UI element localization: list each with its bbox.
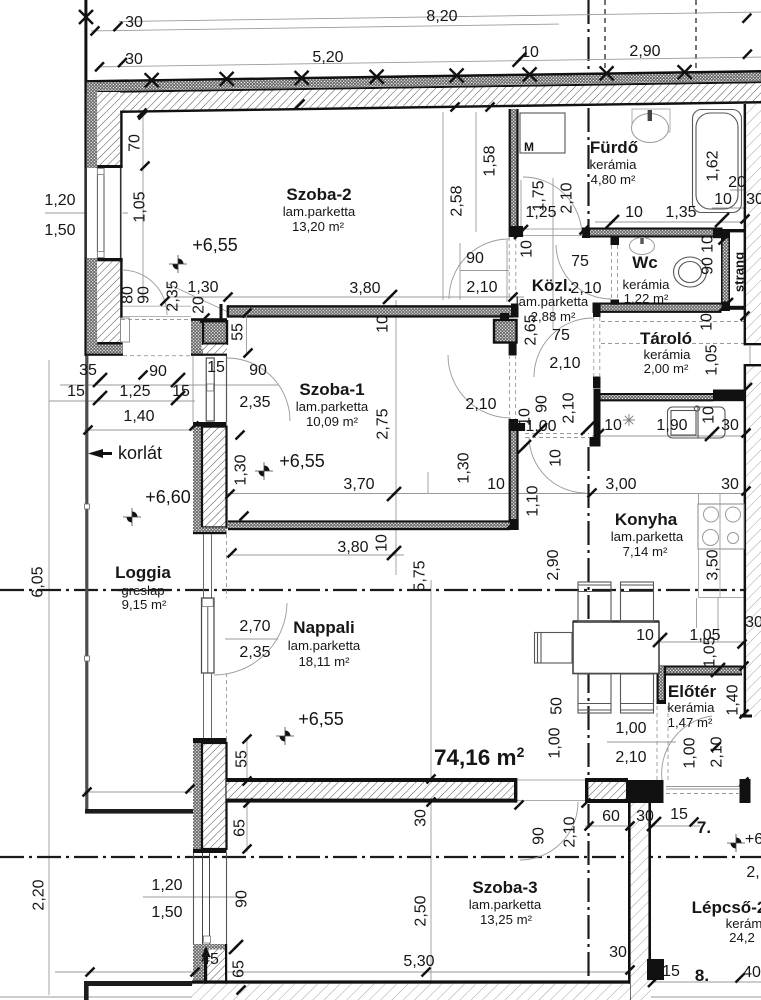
konyha-nappali passage arc (közl door 1,00) xyxy=(529,437,586,493)
svg-text:10: 10 xyxy=(487,476,505,493)
bathtub xyxy=(693,110,742,213)
ticks fürdő 10/1,35 y222 xyxy=(605,215,619,229)
svg-text:65: 65 xyxy=(231,960,248,978)
left wall cap above window xyxy=(97,165,122,168)
washing machine M box xyxy=(520,113,565,153)
svg-text:2,10: 2,10 xyxy=(466,279,497,296)
ext vert x553 xyxy=(552,178,554,330)
svg-text:7.: 7. xyxy=(697,818,711,837)
szoba2 bottom wall right end cap xyxy=(511,304,519,318)
dims rotated xyxy=(30,134,747,978)
svg-text:10: 10 xyxy=(625,204,643,221)
svg-text:10: 10 xyxy=(521,44,539,61)
ticks 1,40 loggia bottom xyxy=(83,788,92,797)
right wall hatch strip xyxy=(746,104,761,344)
svg-text:1,47 m²: 1,47 m² xyxy=(668,715,713,730)
right wall inner face line upper (y105-717) xyxy=(744,104,747,344)
svg-text:3,50: 3,50 xyxy=(705,549,722,580)
svg-text:18,11 m²: 18,11 m² xyxy=(298,654,350,669)
ticks 3,80 y555 xyxy=(228,549,237,558)
svg-text:20: 20 xyxy=(191,296,208,314)
svg-text:9,15 m²: 9,15 m² xyxy=(122,597,167,612)
wall stub below szoba-1 door + nub xyxy=(509,419,518,431)
ticks 70 dim xyxy=(139,111,148,120)
konyha wall L cap bottom xyxy=(590,437,601,447)
dim line lépcső y826 xyxy=(585,825,700,827)
ticks előtér door xyxy=(712,743,721,752)
chimney X marks on wall xyxy=(145,73,159,87)
tároló left door jambs xyxy=(593,313,601,317)
ticks lépcső y826 xyxy=(585,822,594,831)
chair bottom-right xyxy=(621,674,654,713)
lépcső door corner block xyxy=(647,959,664,980)
svg-text:1,58: 1,58 xyxy=(482,145,499,176)
ticks szoba1 bottom wall xyxy=(508,520,517,529)
wall corner cap at fürdő door xyxy=(509,226,523,237)
svg-text:5,20: 5,20 xyxy=(312,49,343,66)
dim line 3,80 y555 xyxy=(228,554,404,556)
svg-text:20: 20 xyxy=(728,174,746,191)
svg-text:2,75: 2,75 xyxy=(375,408,392,439)
svg-text:2,: 2, xyxy=(746,864,759,881)
pillar hatch block xyxy=(203,321,227,344)
left wall stipple strip lower xyxy=(87,258,97,354)
szoba-3 window W4 (y853-944) xyxy=(194,853,227,944)
svg-text:30: 30 xyxy=(636,808,654,825)
left wall inner face upper xyxy=(120,111,122,168)
szoba-2 bottom wall (y305-317) xyxy=(227,305,514,317)
snowflake symbol konyha xyxy=(623,414,635,426)
svg-text:1,05: 1,05 xyxy=(132,191,149,222)
left wall outer face line xyxy=(84,80,86,356)
ticks x431 wall crossing xyxy=(427,775,436,784)
ticks fürdő door dims xyxy=(514,225,528,239)
ext horiz előtér 1,00 y730 half xyxy=(427,472,429,493)
tároló door arc xyxy=(534,318,593,377)
left wall inner face lower xyxy=(120,258,122,344)
svg-text:lam.parketta: lam.parketta xyxy=(516,294,589,309)
ticks előtér wall xyxy=(711,663,725,677)
dim line lépcső y982 xyxy=(632,981,761,983)
svg-text:1,40: 1,40 xyxy=(123,408,154,425)
ext line x246.5 for 55 xyxy=(246,314,248,356)
svg-text:30: 30 xyxy=(125,51,143,68)
wc sink small xyxy=(630,238,655,255)
ext line közl vertical x460 xyxy=(459,243,461,300)
svg-text:korlát: korlát xyxy=(118,443,162,463)
dim line konyha 10/1,05 y644 xyxy=(652,641,744,643)
dim line 35/90/15 y385 xyxy=(60,384,278,386)
szoba-1 / nappali wall vertical (x509-518.5, y431-530) xyxy=(509,431,519,530)
left wall hatch upper xyxy=(97,92,120,168)
ticks 55 pillar xyxy=(243,309,252,318)
left vertical dim line above wall xyxy=(84,0,87,80)
svg-text:1,90: 1,90 xyxy=(656,417,687,434)
svg-text:90: 90 xyxy=(234,890,251,908)
top dim line 30 first xyxy=(91,24,559,31)
svg-text:1,10: 1,10 xyxy=(525,485,542,516)
svg-text:1,05: 1,05 xyxy=(704,344,721,375)
left wall bottom face xyxy=(97,342,122,345)
ext vert x521 fürdő door xyxy=(520,180,522,232)
fürdő door threshold lines (x523-582) xyxy=(523,228,582,230)
wc door jambs and leaf xyxy=(611,236,620,245)
tick right edge top lines xyxy=(742,14,751,23)
svg-text:2,70: 2,70 xyxy=(239,618,270,635)
svg-text:30: 30 xyxy=(721,417,739,434)
svg-text:1,00: 1,00 xyxy=(615,720,646,737)
ticks tároló 10/1,90 y436 xyxy=(590,429,604,443)
svg-text:35: 35 xyxy=(79,362,97,379)
centerline horizontal y590 xyxy=(0,589,761,591)
ticks left wall верх xyxy=(138,109,147,118)
svg-text:Közl.: Közl. xyxy=(532,276,573,295)
közl-konyha wall vertical black bar (x593.5-600.5, y388-446) xyxy=(594,389,601,447)
svg-text:65: 65 xyxy=(232,819,249,837)
svg-text:90: 90 xyxy=(531,827,548,845)
dim line 1,40 loggia bottom xyxy=(84,791,192,793)
dim line 1,20/1,50 bottom xyxy=(143,896,243,898)
ticks 1,40 y430 xyxy=(84,426,93,435)
svg-text:30: 30 xyxy=(413,809,430,827)
svg-text:1,30: 1,30 xyxy=(456,452,473,483)
svg-text:Wc: Wc xyxy=(632,253,658,272)
wall brick hatch band xyxy=(85,83,761,111)
nappali-szoba3 door arc xyxy=(520,802,578,860)
svg-text:2,35: 2,35 xyxy=(239,394,270,411)
svg-text:30: 30 xyxy=(609,944,627,961)
wc right wall / strang (x721-730) xyxy=(721,229,730,311)
svg-text:7,14 m²: 7,14 m² xyxy=(623,544,668,559)
svg-text:2,10: 2,10 xyxy=(561,392,578,423)
ticks tároló right xyxy=(741,312,750,321)
ext vert fürdő 1,58 x476 xyxy=(475,112,477,232)
svg-text:M: M xyxy=(524,140,534,154)
szoba-3 left wall column (y944-1000) xyxy=(193,944,227,1000)
svg-text:90: 90 xyxy=(466,250,484,267)
svg-text:kerámia: kerámia xyxy=(590,157,638,172)
svg-text:10: 10 xyxy=(699,313,716,331)
svg-text:+6,60: +6,60 xyxy=(145,487,191,507)
nappali loggia door arc xyxy=(214,603,287,675)
wall end black edge at szoba-2 wall left xyxy=(220,304,223,320)
svg-text:Loggia: Loggia xyxy=(115,563,171,582)
előtér top wall (x657-742,y665.5-675.5) xyxy=(657,666,742,676)
centerline horizontal y857 xyxy=(0,856,761,858)
left thick line piece xyxy=(84,981,192,986)
svg-text:10: 10 xyxy=(701,406,718,424)
fürdő door arc xyxy=(523,177,582,236)
svg-text:10: 10 xyxy=(636,627,654,644)
svg-text:Fürdő: Fürdő xyxy=(590,138,638,157)
window W1 szoba-2 left xyxy=(86,168,123,258)
szoba2-fürdő wall vertical (x509-518.5, y109-226) xyxy=(509,109,519,226)
svg-text:Konyha: Konyha xyxy=(615,510,678,529)
chair top-left xyxy=(578,582,611,622)
chair top-right xyxy=(621,582,654,622)
svg-text:2,88 m²: 2,88 m² xyxy=(531,309,576,324)
svg-text:10,09 m²: 10,09 m² xyxy=(306,414,359,429)
black corner block (x628-663,y781-803) xyxy=(626,780,664,803)
chair bottom-left xyxy=(578,674,611,713)
ticks 3,70 y494 xyxy=(226,490,235,499)
svg-text:24,2: 24,2 xyxy=(729,930,755,945)
szoba-2 door opening threshold lines xyxy=(123,305,191,307)
svg-text:1,05: 1,05 xyxy=(702,636,719,667)
rail marker square 1 xyxy=(85,504,90,509)
dim line bottom edge y997 xyxy=(0,996,761,998)
svg-text:5,75: 5,75 xyxy=(412,560,429,591)
entry door gap in right wall (y717-779) xyxy=(740,715,752,718)
svg-text:75: 75 xyxy=(552,327,570,344)
svg-text:3,00: 3,00 xyxy=(605,476,636,493)
svg-text:30: 30 xyxy=(721,476,739,493)
small black rect below chimney xyxy=(509,343,517,356)
dim line előtér 1,00/2,10 y742 xyxy=(607,741,676,743)
svg-text:3,80: 3,80 xyxy=(349,280,380,297)
svg-text:55: 55 xyxy=(230,323,247,341)
szoba-1 door arc (to közl) xyxy=(448,355,511,418)
svg-text:3,80: 3,80 xyxy=(337,539,368,556)
small black rect above chimney xyxy=(500,313,509,320)
svg-text:1,40: 1,40 xyxy=(725,684,742,715)
svg-text:90: 90 xyxy=(700,257,717,275)
svg-text:2,10: 2,10 xyxy=(549,355,580,372)
wall stub x585-628 (y778-803) xyxy=(585,778,628,803)
svg-text:8,20: 8,20 xyxy=(426,8,457,25)
nappali loggia window lines y534-598 xyxy=(203,534,205,598)
svg-text:Lépcső-2: Lépcső-2 xyxy=(692,898,761,917)
tároló shelves dashed xyxy=(601,321,744,323)
chair left xyxy=(535,633,573,664)
entry level arrow 45 in szoba-3 wall xyxy=(205,952,207,998)
dim line 70 vertical xyxy=(142,112,144,300)
svg-text:Nappali: Nappali xyxy=(293,618,354,637)
pillar loggia-szoba2: stipple strip xyxy=(191,320,202,356)
svg-text:strang: strang xyxy=(732,252,747,292)
ext vert x744 area right xyxy=(717,598,719,642)
svg-text:10: 10 xyxy=(517,408,534,426)
ext line x431 nappali xyxy=(430,580,432,998)
svg-text:90: 90 xyxy=(136,286,153,304)
svg-text:+6,55: +6,55 xyxy=(192,235,238,255)
svg-text:Szoba-3: Szoba-3 xyxy=(472,878,537,897)
svg-text:10: 10 xyxy=(714,191,732,208)
svg-text:50: 50 xyxy=(549,697,566,715)
svg-text:74,16 m2: 74,16 m2 xyxy=(434,744,525,770)
svg-text:1,30: 1,30 xyxy=(233,454,250,485)
svg-text:kerámia: kerámia xyxy=(644,347,692,362)
ticks konyha 3,00 y493 xyxy=(588,489,597,498)
svg-text:30: 30 xyxy=(746,191,761,208)
svg-text:1,00: 1,00 xyxy=(682,737,699,768)
szoba-1 loggia door frame (x206-214,y358-421) xyxy=(193,356,227,422)
svg-text:1,00: 1,00 xyxy=(547,727,564,758)
window lines y673-738 xyxy=(203,673,205,738)
svg-text:1,20: 1,20 xyxy=(44,192,75,209)
tick double 10 at 5,20 line xyxy=(512,53,526,67)
left wall bottom stipple band xyxy=(87,345,123,354)
szoba-1 bottom wall (x228-510, y520-530) xyxy=(228,520,510,530)
wall insulation stipple band xyxy=(85,72,761,91)
svg-text:6,05: 6,05 xyxy=(30,566,47,597)
svg-text:2,20: 2,20 xyxy=(31,879,48,910)
előtér left wall (x656.5-666,y666-704) xyxy=(657,666,667,704)
svg-text:10: 10 xyxy=(374,534,391,552)
svg-text:1,25: 1,25 xyxy=(119,383,150,400)
chimney block közl xyxy=(494,320,517,343)
svg-text:40: 40 xyxy=(743,964,761,981)
svg-text:45: 45 xyxy=(201,951,219,968)
dim line 1,40 y430 xyxy=(84,429,197,431)
svg-text:2,10: 2,10 xyxy=(709,736,726,767)
loggia-nappali wall column (y422-534) xyxy=(193,422,227,534)
svg-text:1,50: 1,50 xyxy=(44,222,75,239)
svg-text:+6,55: +6,55 xyxy=(298,709,344,729)
svg-text:90: 90 xyxy=(149,363,167,380)
ticks konyha 10/1,05 y641 xyxy=(653,633,667,647)
svg-text:lam.parketta: lam.parketta xyxy=(283,204,356,219)
svg-text:70: 70 xyxy=(127,134,144,152)
svg-text:30: 30 xyxy=(125,14,143,31)
wall outer face line xyxy=(85,70,761,83)
svg-text:10: 10 xyxy=(604,417,622,434)
loggia rail (korlát) line xyxy=(85,356,88,810)
fürdő right small dim lines xyxy=(730,189,761,191)
top dim line 8,20 xyxy=(119,12,761,22)
dashed projection x696 top xyxy=(695,0,697,70)
svg-text:2,35: 2,35 xyxy=(165,280,182,311)
svg-text:13,20 m²: 13,20 m² xyxy=(292,219,345,234)
dim line 3,80 szoba2 xyxy=(168,296,524,298)
svg-text:Előtér: Előtér xyxy=(668,682,717,701)
előtér bottom boundary lines xyxy=(666,786,740,788)
svg-text:5,30: 5,30 xyxy=(403,953,434,970)
svg-text:15: 15 xyxy=(662,963,680,980)
dim line 1,25/15 y401 xyxy=(49,400,195,402)
svg-text:kerám: kerám xyxy=(726,916,761,931)
right wall hatch above tároló window xyxy=(746,318,761,343)
left wall bottom edge line xyxy=(85,354,123,356)
tároló bottom wall (y393-401) xyxy=(601,390,745,402)
svg-text:3,70: 3,70 xyxy=(343,476,374,493)
svg-text:kerámia: kerámia xyxy=(623,277,671,292)
svg-text:2,35: 2,35 xyxy=(239,644,270,661)
svg-text:80: 80 xyxy=(120,286,137,304)
svg-text:kerámia: kerámia xyxy=(668,700,716,715)
svg-text:lam.parketta: lam.parketta xyxy=(469,897,542,912)
left wall stipple strip upper xyxy=(87,82,97,168)
svg-text:15: 15 xyxy=(670,806,688,823)
strang top line xyxy=(730,229,744,232)
svg-text:10: 10 xyxy=(375,315,392,333)
szoba-1 door threshold (x509-516,y355-419) xyxy=(509,355,511,419)
svg-text:10: 10 xyxy=(548,449,565,467)
svg-text:2,50: 2,50 xyxy=(413,895,430,926)
svg-text:2,10: 2,10 xyxy=(615,749,646,766)
ticks szoba2 1,30/3,80 line xyxy=(161,297,170,306)
loggia bottom slab edge xyxy=(85,809,193,814)
svg-text:90: 90 xyxy=(249,362,267,379)
wc bottom wall (y302-311) xyxy=(593,303,722,314)
svg-text:1,50: 1,50 xyxy=(151,904,182,921)
szoba-1 loggia door arc xyxy=(227,358,290,421)
nappali-szoba3 door threshold xyxy=(518,779,586,781)
ticks bottom right y982 xyxy=(648,973,662,987)
svg-text:2,10: 2,10 xyxy=(559,182,576,213)
svg-text:60: 60 xyxy=(602,808,620,825)
ticks közl top door dims xyxy=(533,423,547,437)
ticks 35/90/15 y385 xyxy=(93,373,107,387)
svg-text:1,62: 1,62 xyxy=(705,150,722,181)
centerline vertical x588 szoba-3 xyxy=(587,804,589,1000)
ticks bottom door 90 xyxy=(515,801,524,810)
centerline vertical x588 konyha-nappali xyxy=(587,447,589,780)
wall inner face line xyxy=(85,101,761,114)
dashed projection x605 top xyxy=(604,0,606,73)
konyha stove xyxy=(698,504,744,549)
korlát arrow xyxy=(88,449,103,458)
left wall cap below window xyxy=(97,258,122,261)
dim line 5,30 y972 xyxy=(55,971,632,973)
szoba-2 door arc xyxy=(122,270,167,315)
tick 30 line2 left xyxy=(95,62,104,71)
wall mid line xyxy=(85,81,761,93)
dim line 2,70/2,35 nappali xyxy=(225,638,278,640)
svg-text:2,00 m²: 2,00 m² xyxy=(644,361,689,376)
svg-text:10: 10 xyxy=(700,235,717,253)
centerline vertical x588 top xyxy=(587,0,589,76)
ticks on 20 vert xyxy=(201,314,210,323)
svg-text:15: 15 xyxy=(67,383,85,400)
dashed line across loggia door bottom xyxy=(123,355,191,357)
nappali loggia door frame (x201-214,y598-673) xyxy=(202,598,215,673)
X mark top-left xyxy=(79,10,93,24)
sep line 90/2,10 szoba2 door xyxy=(460,270,509,272)
svg-text:13,25 m²: 13,25 m² xyxy=(480,912,533,927)
ext line közl vertical x507 xyxy=(506,240,508,302)
ticks szoba2-fürdő wall top xyxy=(296,100,305,109)
svg-text:4,80 m²: 4,80 m² xyxy=(591,172,636,187)
dim line 1,30/20 xyxy=(168,284,228,312)
strang bottom line xyxy=(722,306,744,310)
svg-text:2,10: 2,10 xyxy=(465,396,496,413)
dim line fürdő 10/1,35 y222 xyxy=(595,221,746,223)
centerline vertical x588 fürdő xyxy=(587,108,589,228)
wc toilet xyxy=(674,257,707,287)
ext line x247 for 55/65 wall dims xyxy=(246,737,248,852)
szoba-2/közl door arc xyxy=(449,239,509,299)
svg-text:1,22 m²: 1,22 m² xyxy=(624,291,669,306)
rail marker square 2 xyxy=(85,656,90,661)
svg-text:10: 10 xyxy=(519,240,536,258)
window parapet mark small rect xyxy=(121,318,130,342)
ticks 1,25/15 y401 xyxy=(93,391,107,405)
left wall hatch lower xyxy=(97,261,120,342)
right wall bottom cap (y779-803) xyxy=(740,779,751,803)
svg-text:lam.parketta: lam.parketta xyxy=(296,399,369,414)
tick 30 line1 left xyxy=(90,26,99,35)
dim line 3,70/10/3,00 y493.5 xyxy=(228,493,750,495)
svg-text:lam.parketta: lam.parketta xyxy=(611,529,684,544)
közl-nappali door lintel dashed (x525-589,y434) xyxy=(525,433,589,435)
svg-text:+6: +6 xyxy=(745,831,761,848)
svg-text:2,90: 2,90 xyxy=(629,43,660,60)
svg-text:30: 30 xyxy=(745,614,761,631)
svg-text:8.: 8. xyxy=(695,966,709,985)
dim line 1,20/1,50 top-left xyxy=(45,212,128,214)
pillar bottom hatch band xyxy=(203,345,227,354)
